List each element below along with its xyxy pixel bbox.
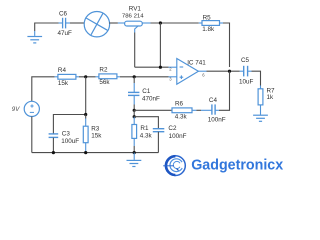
wire C6 to lamp bbox=[70, 22, 85, 24]
svg-text:4.3k: 4.3k bbox=[140, 132, 153, 139]
wire R5 to feedback column bbox=[223, 23, 230, 67]
node junction R3 top bbox=[84, 113, 87, 116]
resistor R3 bbox=[83, 115, 102, 153]
wire C2 row bbox=[134, 117, 158, 129]
svg-text:R5: R5 bbox=[203, 15, 212, 22]
node junction C1/R6 bbox=[133, 109, 136, 112]
wire battery bottom to rail bbox=[31, 117, 33, 153]
svg-text:C5: C5 bbox=[241, 57, 250, 64]
wire C5 to R7 bbox=[252, 71, 261, 85]
svg-text:470nF: 470nF bbox=[142, 96, 160, 103]
wire battery top to R4 bbox=[32, 77, 55, 102]
wire opamp output to C5 bbox=[207, 70, 240, 72]
wire lamp to RV1 bbox=[109, 22, 118, 24]
capacitor C5 bbox=[239, 57, 254, 86]
node junction top rail / pin2 drop bbox=[159, 21, 162, 24]
wire R4 to R2 bbox=[79, 76, 96, 78]
ground (top left) bbox=[27, 37, 42, 43]
svg-text:R4: R4 bbox=[58, 67, 67, 74]
svg-text:C6: C6 bbox=[59, 11, 68, 18]
svg-text:100nF: 100nF bbox=[208, 116, 226, 123]
capacitor C4 bbox=[201, 97, 226, 124]
ground (below R7) bbox=[253, 115, 268, 121]
svg-text:100nF: 100nF bbox=[169, 133, 187, 140]
capacitor C1 bbox=[128, 77, 160, 111]
resistor R4 bbox=[55, 67, 79, 87]
svg-text:9V: 9V bbox=[12, 106, 20, 113]
svg-text:47uF: 47uF bbox=[58, 30, 73, 37]
wire RV1 to R5 bbox=[151, 22, 199, 24]
capacitor C6 bbox=[58, 11, 73, 38]
resistor R7 bbox=[258, 86, 275, 115]
wire C1 column to C2 row bbox=[133, 110, 135, 117]
node junction pin2 bbox=[159, 66, 162, 69]
node junction C1/C2 bbox=[133, 115, 136, 118]
wire feedback column to C4 row bbox=[219, 71, 230, 110]
svg-text:C3: C3 bbox=[62, 130, 71, 137]
svg-text:R1: R1 bbox=[140, 125, 149, 132]
node junction output/feedback bbox=[228, 70, 231, 73]
node junction R1/ground bottom bbox=[133, 151, 136, 154]
node junction R2/C1/pin3 bbox=[133, 75, 136, 78]
logo icon Gadgetronicx bbox=[163, 156, 185, 176]
svg-text:15k: 15k bbox=[58, 80, 69, 87]
wire top rail left: ground corner to C6 bbox=[35, 23, 59, 31]
svg-text:R3: R3 bbox=[91, 125, 100, 132]
resistor R5 bbox=[199, 15, 223, 34]
svg-text:1k: 1k bbox=[267, 94, 275, 101]
wire wiper column down bbox=[134, 33, 136, 68]
svg-text:56k: 56k bbox=[99, 79, 110, 86]
svg-text:C4: C4 bbox=[209, 97, 218, 104]
svg-text:4.3k: 4.3k bbox=[175, 113, 188, 120]
svg-text:R6: R6 bbox=[175, 101, 184, 108]
svg-text:R2: R2 bbox=[99, 66, 108, 73]
op-amp U1 IC 741 bbox=[169, 59, 207, 85]
wire junction down to pin2 line bbox=[159, 23, 161, 67]
svg-text:786 214: 786 214 bbox=[122, 13, 144, 19]
lamp bbox=[84, 12, 109, 37]
wire R6 row bbox=[134, 109, 172, 111]
wire R2 to opamp pin3 bbox=[120, 76, 169, 78]
node junction C3 bottom bbox=[52, 151, 55, 154]
svg-text:10uF: 10uF bbox=[239, 79, 254, 86]
resistor R1 bbox=[132, 117, 153, 153]
svg-text:C2: C2 bbox=[168, 125, 177, 132]
potentiometer RV1 bbox=[118, 6, 151, 33]
svg-text:RV1: RV1 bbox=[129, 6, 142, 13]
ground (bottom centre) bbox=[127, 153, 142, 167]
wire R6 to C4 bbox=[197, 109, 202, 111]
svg-text:C1: C1 bbox=[142, 88, 151, 95]
svg-text:15k: 15k bbox=[91, 132, 102, 139]
node junction R4/R2/R3 bbox=[84, 75, 87, 78]
svg-text:1.8k: 1.8k bbox=[202, 26, 215, 33]
node junction R3 bottom bbox=[84, 151, 87, 154]
wire pin2 horizontal bbox=[135, 66, 169, 68]
wire C3 branch bbox=[53, 115, 85, 134]
svg-text:Gadgetronicx: Gadgetronicx bbox=[191, 157, 284, 174]
resistor R6 bbox=[172, 101, 197, 121]
svg-text:100uF: 100uF bbox=[61, 138, 79, 145]
wire junction down to R3 bbox=[85, 77, 87, 115]
resistor R2 bbox=[96, 66, 120, 86]
battery BAT 9V bbox=[24, 101, 39, 116]
capacitor C3 bbox=[49, 130, 80, 152]
svg-text:IC 741: IC 741 bbox=[187, 59, 206, 66]
wire bottom rail bbox=[32, 152, 159, 154]
capacitor C2 bbox=[153, 125, 187, 152]
